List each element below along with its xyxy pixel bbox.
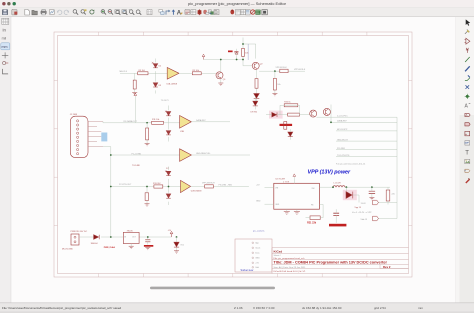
toolbar icon: netlist [236,10,241,15]
toolbar icon: new sheet [25,9,30,15]
wire [353,195,359,203]
resistor R21 [310,216,320,220]
right tool: place bus [465,66,470,71]
status bar [0,303,474,313]
svg-text:VPP-MOS-K: VPP-MOS-K [276,67,288,69]
ground [145,204,150,206]
svg-text:GND: GND [255,258,260,260]
junction [346,186,348,188]
title bar [0,0,474,8]
power +5V [235,52,238,54]
transistor Q4 [323,108,330,115]
left tool: units mm (selected) [1,43,10,50]
regulator U4 [123,232,139,243]
toolbar icon: zoom in [101,10,106,15]
svg-text:DATA-RB7: DATA-RB7 [196,119,206,122]
svg-text:X 150.50 Y 0.00: X 150.50 Y 0.00 [253,306,275,310]
toolbar icon: open PCB editor [255,10,260,15]
wire [243,38,256,66]
toolbar icon: run ERC report [230,10,234,15]
right tool: place wire [465,57,470,62]
svg-text:PIC-RB1: PIC-RB1 [337,148,346,150]
svg-text:MB-CLK: MB-CLK [120,71,128,73]
wire [274,71,276,93]
wire [191,121,230,123]
toolbar icon: show PCB [214,10,219,15]
connector J1 DB9 [70,116,88,157]
toolbar icon: update PCB from schematic [208,10,213,15]
resistor R20 [386,190,390,201]
ground [218,83,223,85]
transistor Q1 [216,72,223,79]
toolbar icon: highlight [251,10,255,14]
wire [280,105,310,114]
svg-text:VPP-MOS-K: VPP-MOS-K [294,69,306,71]
svg-text:mil: mil [2,37,7,41]
svg-text:10k: 10k [277,84,280,86]
diode D3 [153,83,158,87]
junction [168,186,170,188]
sheet frame ticks [54,32,412,277]
IC U3 pin names [275,188,314,207]
svg-text:R21 22k: R21 22k [307,222,317,225]
wire [319,187,390,218]
connector P2 [235,239,272,272]
wire [317,105,398,123]
op-amp U1A [167,68,179,80]
right tool: hierarchical sheet [465,131,470,135]
svg-text:KiCad: KiCad [274,249,283,253]
svg-text:2-CLK-PGC: 2-CLK-PGC [337,115,348,117]
wire [265,177,295,204]
left tool: show grid [2,18,9,24]
ground [174,251,179,253]
wire [191,185,249,187]
IC U3 box [274,183,320,209]
toolbar icon: find [73,10,78,15]
right tool: sheet pin [465,169,470,172]
svg-text:PWR 9V-15V DC: PWR 9V-15V DC [71,231,88,233]
toolbar icon: zoom selection [129,10,134,15]
junction [110,236,112,238]
connector J1 pins [77,120,79,155]
capacitor C12 [145,240,150,242]
toolbar icon: annotate [177,10,183,16]
resistor R15 [205,185,214,188]
svg-text:in: in [3,28,7,33]
junction [110,186,112,188]
toolbar icon: footprint editor [262,10,267,15]
capacitor C3 [234,49,238,56]
value label bold C12 [144,245,153,247]
traffic light close [2,2,5,5]
wire [256,69,258,102]
ground [294,212,300,215]
left toolbar panel [0,17,11,303]
resistor R18 [284,122,287,130]
diode D4 [254,94,260,99]
power +5V [293,174,296,176]
right tool: place symbol [465,38,470,44]
svg-text:Title: JDM - COM84 PIC Program: Title: JDM - COM84 PIC Programmer with 1… [274,261,388,265]
ground [129,246,134,248]
svg-text:Vcc-5 +13.4V ~= VPP: Vcc-5 +13.4V ~= VPP [352,212,372,214]
left tool: full cursor [2,52,8,58]
right tool: import sheet pin [465,141,470,145]
svg-text:TX-1473-RTS: TX-1473-RTS [337,155,350,157]
toolbar icon: ERC details [203,10,208,15]
zener D9 [253,97,258,110]
sheet outer border [54,32,412,277]
svg-text:mm: mm [2,45,8,49]
right tool: select arrow [466,19,471,25]
wire [120,72,167,74]
resistor R10 [273,78,276,90]
svg-text:L1 1mH: L1 1mH [334,182,342,184]
toolbar icon: save [2,9,8,15]
resistor R4 [133,80,136,89]
diode D2 [152,62,158,68]
svg-text:P-to pic-sommet-connect-link_1: P-to pic-sommet-connect-link_14 [336,162,366,165]
svg-text:Socket view: Socket view [241,269,254,272]
wire [155,59,157,94]
svg-text:dx 152.88 dy 1.94 dist 152.9: dx 152.88 dy 1.94 dist 152.90 [302,306,342,310]
wire [146,187,148,204]
hierarchical label Vpp [361,200,379,205]
ground [284,212,290,215]
svg-text:PC-RTS-OUT: PC-RTS-OUT [119,184,132,186]
horizontal scrollbar thumb [150,287,275,290]
svg-text:R11 10k: R11 10k [152,119,159,121]
svg-text:GND: GND [275,204,280,206]
toolbar icon: zoom redraw [136,10,141,15]
ground [145,144,150,146]
svg-text:Vdd: Vdd [255,267,259,269]
bus entry (selected) [101,133,107,142]
toolbar icon: navigate up [172,9,175,14]
svg-text:SW: SW [312,188,315,190]
toolbar icon: print [41,10,46,15]
left tool: hidden pins [3,61,9,64]
svg-text:grid 2.54: grid 2.54 [374,306,386,310]
wire [179,72,216,74]
transistor Q2 [252,62,259,69]
op-amp U2A [180,149,192,162]
left tool: HV line mode [3,69,9,74]
connector J3 [71,234,79,245]
right tool: highlight net [465,30,470,34]
value label bold C11 [329,224,346,227]
connector P2 pins [252,242,260,269]
junction [236,59,238,61]
svg-text:R3 1k5: R3 1k5 [139,70,146,72]
svg-text:VPP-SWITCH: VPP-SWITCH [202,183,215,185]
junction [176,236,178,238]
wire [134,96,136,123]
right tool: place text [465,151,469,157]
resistor R6 [242,49,245,57]
svg-text:Vpp 13: Vpp 13 [355,207,362,209]
resistor R16 [284,104,298,107]
resistor R12 [146,128,149,140]
resistor R5 [192,72,201,75]
op-amp U2B [181,180,191,192]
value label C3 (bold) [228,51,233,53]
resistor R13 [154,185,163,188]
right tool: place image [465,159,470,163]
svg-text:GND-MCLR: GND-MCLR [337,139,348,141]
svg-text:T: T [465,151,469,157]
right tool: delete tool [465,178,470,183]
svg-text:1N4004: 1N4004 [91,243,99,245]
svg-text:Sheet: /: Sheet: / [274,254,282,257]
toolbar icon: symbol table [240,10,245,15]
diode D13 [94,235,100,240]
inductor L1 [333,186,345,187]
junction [146,122,148,124]
zener D14 [176,237,178,251]
svg-text:PIC-RB1 - RB1: PIC-RB1 - RB1 [219,184,233,186]
toolbar icon: symbol library table [191,10,196,15]
toolbar icon: redo [64,10,69,14]
diode D5 [165,111,171,116]
svg-text:R5 10k: R5 10k [193,70,199,72]
toolbar icon: open [32,10,37,14]
wire [259,70,305,72]
junction [147,236,149,238]
svg-text:VPP (13V) power: VPP (13V) power [308,170,352,176]
ground [369,198,374,200]
left tool: units inches [3,28,7,33]
svg-text:TX-1473: TX-1473 [161,100,170,102]
ground [272,94,277,96]
diode D10 (selected) [269,111,283,119]
svg-text:MCLR-VPP: MCLR-VPP [337,129,348,131]
right tool: place power port [466,48,469,53]
wire [134,73,136,92]
capacitor C11 [333,213,339,215]
junction [371,186,373,188]
svg-text:U1B: U1B [180,131,185,133]
right tool: no connect flag [466,85,470,89]
left tool: units mils [2,37,7,41]
power +5V rail end [202,54,205,59]
svg-text:78L05: 78L05 [127,230,134,232]
junction [330,121,332,123]
svg-text:D9 8V2: D9 8V2 [251,111,259,113]
wire [79,236,172,238]
svg-text:Size: A4 | Date: Sun 23 Jan: Size: A4 | Date: Sun 23 Jan 2011 [274,266,307,269]
svg-text:PWR_FLAG: PWR_FLAG [104,246,116,249]
junction [146,186,148,188]
svg-text:pic_sockets: pic_sockets [253,230,265,233]
svg-text:Rev 2: Rev 2 [383,265,391,269]
toolbar icon: navigate schematic hierarchy [159,10,164,15]
power +5V arrow [170,231,173,237]
hierarchical label Vdd [361,216,379,221]
resistor R3 [138,72,148,75]
sheet inner border [58,36,409,274]
op-amp U1B [180,116,192,129]
toolbar background [0,8,474,18]
svg-text:RX-DATA-OUT: RX-DATA-OUT [124,120,138,123]
toolbar icon: zoom to objects [122,10,127,15]
toolbar icon: find and replace [81,9,87,14]
resistor R11 [152,121,164,124]
resistor R17 [288,113,300,116]
resistor R7 [255,79,258,89]
junction [332,186,334,188]
wire [204,56,244,83]
svg-text:U1A LM358: U1A LM358 [167,82,178,85]
transistor Q3 [310,110,317,117]
title block frame [272,248,409,274]
svg-text:TX-1488: TX-1488 [132,165,141,167]
toolbar icon: edit schematic setup [12,10,17,15]
wire [168,106,170,142]
wire [146,123,148,144]
svg-text:Z 1.06: Z 1.06 [234,306,243,310]
svg-text:MCLR-GND: MCLR-GND [62,249,73,251]
svg-text:KiCad E.D.A. kicad 6.0.0 |: KiCad E.D.A. kicad 6.0.0 | Id: 1/1 [274,270,307,273]
svg-text:GND-RB4-PULL: GND-RB4-PULL [196,153,212,155]
wire [191,154,250,156]
wire [88,122,103,147]
svg-text:mm: mm [418,306,423,310]
right tool: net label [465,104,471,110]
toolbar icon: undo [57,10,62,14]
toolbar icon: plot [49,10,54,15]
svg-text:R13 2k2: R13 2k2 [153,183,161,185]
svg-text:13.4V: 13.4V [361,203,367,205]
junction [242,43,244,45]
junction [220,59,222,61]
ground [132,93,137,95]
ground [145,247,150,249]
right tool: global label [465,113,470,117]
toolbar icon: zoom out [108,10,113,15]
diode D8 [166,194,171,198]
wire [336,131,397,157]
traffic light minimize [7,2,10,5]
toolbar icon: zoom fit [115,10,120,15]
resistor R14 [145,193,148,201]
svg-text:Vdd-13: Vdd-13 [361,219,368,221]
bus segment [247,44,249,60]
toolbar icon: show grid settings [147,10,152,15]
svg-text:J1 DB9: J1 DB9 [70,114,78,116]
toolbar icon: BOM [246,10,251,15]
wire [266,114,288,116]
junction [242,59,244,61]
svg-text:Clock: Clock [255,248,260,250]
svg-text:22k: 22k [392,194,395,196]
svg-text:U2B LM358: U2B LM358 [191,191,202,193]
wire [103,122,180,124]
svg-text:U3 TL497: U3 TL497 [276,179,286,181]
value label bold R18 [280,124,293,126]
svg-text:pic_programmer [pic_programmer: pic_programmer [pic_programmer] — Schema… [188,1,287,6]
diode D6 [166,131,171,135]
wire [168,167,170,206]
resistor R9 [280,69,288,72]
svg-text:DATA-RB7: DATA-RB7 [337,120,347,123]
svg-text:File '/Users/user/Documents/Ki: File '/Users/user/Documents/KiCad/demos/… [2,306,122,310]
svg-text:R16 1k: R16 1k [284,102,290,104]
svg-text:GND: GND [256,201,261,203]
capacitor C10 [369,191,375,193]
svg-text:A: A [466,113,468,117]
svg-text:1 7 8 9: 1 7 8 9 [283,182,290,184]
toolbar icon: edit symbol fields [185,10,190,15]
right tool: hierarchical label [465,123,470,126]
power +5V [134,93,137,95]
junction [274,70,276,72]
wire [111,186,181,188]
toolbar icon: leave sheet [166,10,170,15]
wire bus vertical [396,117,398,202]
diode D11 [288,129,293,140]
toolbar icon: ERC [198,9,202,15]
junction [110,154,112,156]
traffic light zoom [13,2,16,5]
wire [111,154,180,156]
diode D7 [165,170,171,175]
right tool: junction [465,94,470,99]
right tool: wire to bus entry [465,75,470,80]
toolbar icon: refresh view [90,10,95,14]
right toolbar panel [456,17,474,303]
diode D12 (selected) [343,190,357,200]
